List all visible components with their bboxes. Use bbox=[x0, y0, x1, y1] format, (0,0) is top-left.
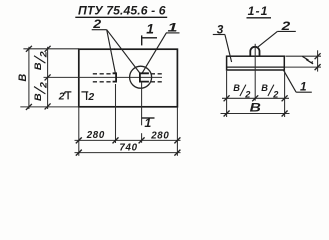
weld mark 2T left of slab edge bbox=[58, 91, 72, 102]
svg-text:280: 280 bbox=[86, 130, 105, 141]
svg-text:1: 1 bbox=[144, 116, 151, 130]
label B/2 right (section) bbox=[261, 83, 279, 99]
dimension line B (left) bbox=[28, 47, 30, 109]
svg-text:2: 2 bbox=[58, 91, 65, 102]
ticks bbox=[224, 95, 288, 101]
dimension line B/2 (left) bbox=[47, 47, 49, 109]
ticks bbox=[315, 53, 321, 70]
title ПТУ 75.45.6-6 bbox=[75, 4, 167, 18]
thickness dimension line bbox=[317, 50, 319, 71]
tick bbox=[26, 46, 32, 52]
extension line top left bbox=[23, 48, 79, 50]
label B/2 left (section) bbox=[233, 83, 251, 99]
plate outline bbox=[227, 56, 285, 70]
svg-text:В: В bbox=[33, 62, 43, 70]
svg-text:1: 1 bbox=[146, 22, 154, 37]
svg-text:В: В bbox=[17, 74, 29, 82]
svg-text:740: 740 bbox=[119, 142, 137, 153]
dimension line 280+280 bbox=[75, 139, 181, 141]
inner layer line bbox=[227, 66, 285, 68]
weld mark T2 right of slab edge bbox=[81, 92, 94, 103]
plan view slab outline bbox=[79, 49, 178, 107]
extension below plate right bbox=[284, 71, 286, 117]
svg-text:ПТУ 75.45.6 - 6: ПТУ 75.45.6 - 6 bbox=[78, 4, 166, 18]
section cut vertical line through loop bbox=[141, 82, 143, 126]
svg-text:2: 2 bbox=[92, 17, 102, 31]
label B/2 upper (rotated fraction) bbox=[33, 51, 49, 70]
extension below plate left bbox=[226, 71, 228, 117]
ticks bbox=[224, 111, 288, 117]
lifting loop (section) bbox=[250, 47, 259, 57]
loop left bend bracket bbox=[113, 73, 117, 81]
dimension line 740 bbox=[75, 152, 181, 154]
loop right bend bracket bbox=[140, 73, 149, 81]
svg-text:2: 2 bbox=[87, 92, 94, 103]
loop centerline / extension bbox=[254, 44, 256, 101]
section mark top bbox=[142, 22, 157, 46]
svg-text:2: 2 bbox=[244, 89, 251, 99]
extension line below loop1 bbox=[115, 84, 117, 143]
label 2 (plan) with leaders to both loops bbox=[92, 17, 140, 73]
loop right hidden legs (dashed) bbox=[151, 74, 162, 82]
svg-text:280: 280 bbox=[150, 130, 169, 141]
loop left hidden legs (dashed) bbox=[93, 74, 113, 82]
svg-text:2: 2 bbox=[39, 51, 49, 59]
extension line below right edge bbox=[176, 107, 178, 156]
dimension line B (section) bbox=[221, 113, 290, 115]
ticks bbox=[76, 150, 181, 156]
label 1 (section) with leader to plate corner bbox=[284, 70, 312, 93]
svg-text:В: В bbox=[250, 101, 261, 115]
svg-text:В: В bbox=[233, 83, 240, 93]
svg-text:2: 2 bbox=[39, 82, 49, 90]
svg-text:1-1: 1-1 bbox=[248, 4, 269, 18]
label 1 (plan) with leader to slab bbox=[142, 21, 179, 73]
ticks bbox=[76, 137, 181, 143]
extension line below left edge bbox=[78, 107, 80, 156]
svg-text:В: В bbox=[261, 83, 268, 93]
svg-text:2: 2 bbox=[280, 19, 290, 32]
label 3 with leader bbox=[213, 23, 232, 62]
label B/2 lower (rotated fraction) bbox=[33, 82, 49, 101]
dimension line B/2 B/2 (section) bbox=[222, 97, 289, 99]
svg-text:1: 1 bbox=[300, 79, 307, 93]
thickness extension top bbox=[285, 55, 321, 57]
label 2 (section) with leader to loop bbox=[257, 19, 296, 47]
detail circle around right loop bbox=[130, 66, 152, 88]
section title 1-1 bbox=[247, 4, 272, 18]
horizontal centerline through loops bbox=[44, 76, 163, 78]
ticks bbox=[45, 46, 51, 52]
extension line bottom left bbox=[20, 106, 79, 108]
thickness extension bottom bbox=[285, 66, 321, 68]
svg-text:В: В bbox=[33, 93, 43, 101]
section mark bottom bbox=[142, 116, 155, 130]
svg-text:2: 2 bbox=[272, 89, 279, 99]
thickness letter h (handwritten) bbox=[302, 56, 313, 63]
